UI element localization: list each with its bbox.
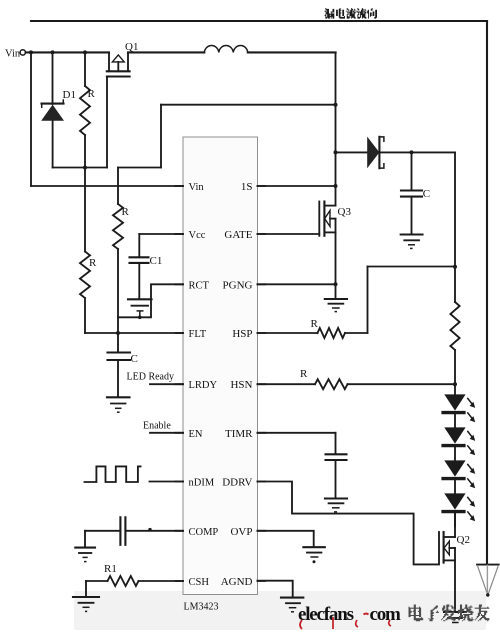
svg-text:R: R (311, 318, 319, 330)
node R tap (83, 50, 87, 54)
svg-text:C1: C1 (150, 255, 163, 267)
svg-text:PGNG: PGNG (223, 279, 253, 291)
wire Vcc pin (139, 234, 183, 257)
ground (Q2 source) (444, 612, 466, 623)
wire TIMR pin (258, 433, 336, 454)
LED D2 (441, 394, 475, 427)
svg-text:com: com (370, 604, 402, 625)
ground (AGND) (281, 598, 303, 612)
LED D5 (441, 493, 475, 526)
wire switch-node feedback y104.7 (161, 104, 336, 106)
svg-text:LM3423: LM3423 (184, 602, 219, 613)
resistor R (HSN) (258, 368, 456, 389)
node Vin drop (29, 50, 33, 54)
diode D (rectifier) (336, 137, 456, 169)
transistor Q3 (319, 202, 351, 285)
watermark 电子发烧友 (409, 605, 490, 622)
svg-text:TIMR: TIMR (225, 428, 253, 440)
watermark background strip (74, 591, 486, 630)
PWM squarewave symbol (85, 466, 141, 482)
svg-text:D1: D1 (63, 89, 76, 101)
ground (CSH/R1) (73, 581, 99, 611)
inductor L (204, 46, 248, 53)
svg-text:DDRV: DDRV (222, 477, 252, 489)
svg-text:Q3: Q3 (338, 206, 352, 218)
svg-text:Vcc: Vcc (189, 230, 206, 241)
wire AGND pin (258, 581, 293, 598)
wire RCT pin (118, 284, 183, 317)
resistor R (HSP) (258, 267, 456, 339)
svg-text:OVP: OVP (230, 526, 252, 538)
svg-text:EN: EN (189, 429, 203, 440)
wire 1S pin (258, 185, 336, 187)
node FLT junction (116, 331, 120, 335)
ground (TIMR cap) (325, 499, 347, 512)
capacitor C (output) (401, 152, 430, 234)
output arrow (open triangle) (477, 565, 499, 597)
svg-text:R: R (88, 88, 96, 100)
wire Vin pin (31, 185, 183, 187)
svg-text:1S: 1S (241, 181, 253, 193)
wire OVP pin (258, 531, 314, 547)
svg-text:CSH: CSH (189, 577, 210, 588)
svg-text:GATE: GATE (224, 229, 252, 241)
transistor Q1 (107, 41, 139, 168)
svg-text:R: R (122, 206, 130, 218)
LED D4 (441, 460, 475, 493)
ground (C1) (128, 299, 152, 319)
svg-text:AGND: AGND (221, 576, 253, 588)
svg-text:Vin: Vin (189, 182, 205, 193)
wire LRDY pin (127, 372, 184, 385)
svg-text:RCT: RCT (189, 280, 210, 291)
node D1 tap (51, 50, 55, 54)
resistor R (OVP divider) + LED column top (450, 152, 459, 394)
ground (PGNG) (325, 284, 347, 311)
capacitor (TIMR) (326, 454, 347, 498)
svg-text:R1: R1 (104, 563, 117, 575)
resistor R (sense divider) (113, 168, 130, 353)
svg-text:LRDY: LRDY (189, 380, 218, 391)
svg-text:LED Ready: LED Ready (127, 372, 175, 383)
svg-text:R: R (300, 368, 308, 380)
capacitor C (FLT) (108, 353, 138, 398)
label 漏电流流向 (325, 8, 378, 19)
wire nDIM pin (150, 481, 184, 483)
ground (OVP) (303, 547, 324, 563)
transistor Q2 (439, 512, 470, 612)
ground (FLT cap) (107, 397, 130, 412)
svg-text:elecfans: elecfans (298, 604, 354, 625)
capacitor (COMP series) (85, 517, 183, 545)
wire Vin to IC pin (30, 52, 32, 186)
svg-text:HSP: HSP (232, 328, 252, 340)
wire GATE pin (258, 233, 320, 235)
resistor R1 (86, 563, 183, 586)
resistor R (input divider top) (80, 52, 96, 167)
top leakage-current rail (31, 20, 487, 22)
op-amp U1 LM3423 body (175, 137, 265, 613)
watermark elecfans.com (298, 604, 401, 625)
svg-text:Q2: Q2 (457, 534, 470, 546)
svg-text:Enable: Enable (143, 421, 171, 432)
wire switch node vertical (334, 52, 338, 205)
wire riser x161 (160, 105, 162, 168)
capacitor C1 (130, 255, 163, 299)
svg-text:COMP: COMP (189, 527, 219, 538)
svg-text:nDIM: nDIM (189, 478, 215, 489)
svg-text:Vin: Vin (5, 49, 21, 60)
wire Vin rail (26, 51, 336, 53)
right border wire (486, 21, 488, 564)
resistor R (lower divider) (80, 168, 97, 334)
svg-text:Q1: Q1 (125, 41, 138, 53)
wire bar to sense branch (118, 167, 161, 169)
Vin terminal (5, 49, 25, 60)
LED D3 (441, 427, 475, 460)
watermark red marks (300, 617, 391, 629)
wire EN pin (143, 421, 183, 433)
zener D1 (41, 52, 76, 167)
wire DDRV to Q2 gate (258, 482, 440, 565)
svg-text:C: C (423, 188, 430, 200)
svg-text:C: C (131, 353, 138, 365)
wire PGNG pin (258, 282, 338, 286)
svg-text:HSN: HSN (230, 379, 252, 391)
wire D1/R/Q1-gate bottom bar (53, 166, 107, 170)
ground (output cap) (401, 235, 423, 249)
svg-text:R: R (89, 257, 97, 269)
svg-text:FLT: FLT (189, 329, 207, 340)
wire FLT pin (85, 332, 183, 334)
ground (COMP) (75, 531, 95, 562)
